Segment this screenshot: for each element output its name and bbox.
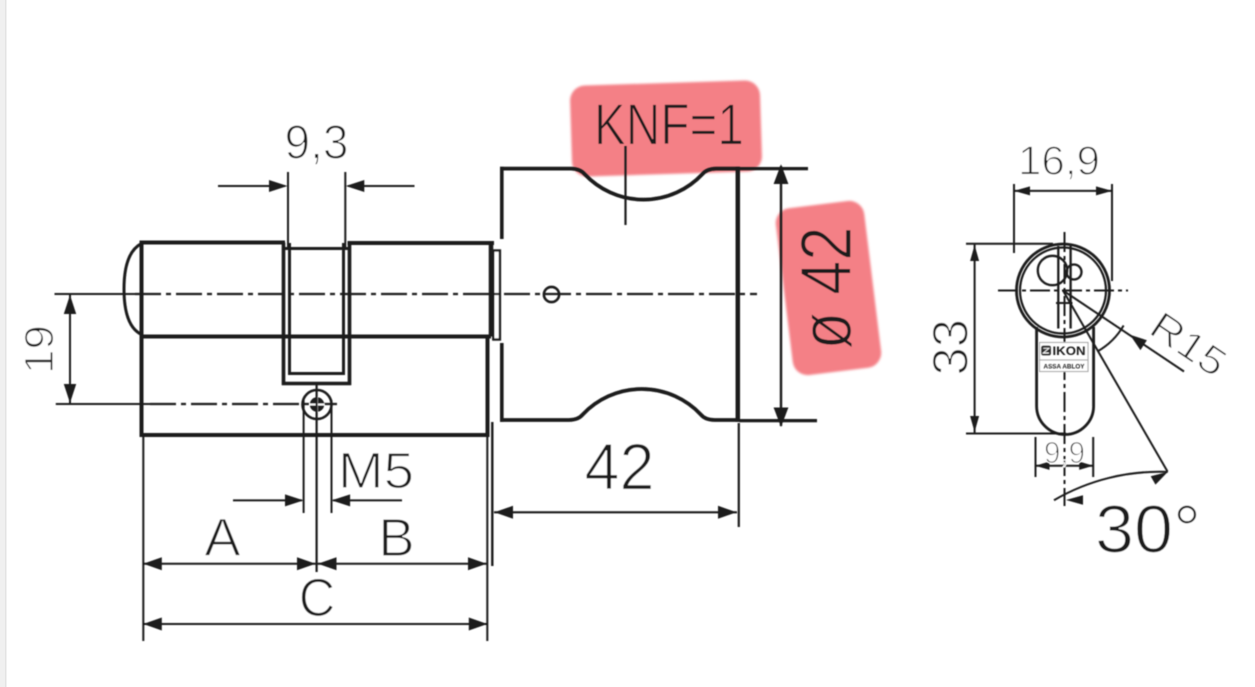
svg-text:30°: 30° — [1095, 492, 1201, 568]
knob face hole — [544, 287, 559, 302]
knob left edge lower segment — [500, 343, 504, 422]
keyway tick — [1056, 302, 1073, 304]
dim 33 extension lines — [966, 243, 1053, 245]
dim C line — [143, 623, 487, 625]
profile circle inner — [1020, 248, 1106, 334]
highlight marker O42 — [774, 199, 883, 377]
barrel right edge — [489, 241, 494, 337]
right extension line — [486, 437, 488, 641]
cam slot inner U — [290, 243, 344, 374]
dim O42 extensions — [740, 167, 809, 170]
keyway dome circle — [1038, 256, 1067, 285]
svg-text:C: C — [299, 569, 336, 628]
bridge top edge — [284, 247, 350, 250]
dim 19 line and arrows — [69, 295, 71, 403]
body bottom edge — [140, 433, 488, 437]
knob top edge with groove arc — [500, 169, 740, 200]
profile foot — [1037, 327, 1094, 435]
barrel top edge right half — [348, 241, 495, 245]
knob right edge — [736, 167, 741, 422]
svg-text:IKON: IKON — [1053, 346, 1086, 358]
knob left edge upper segment — [500, 167, 504, 239]
keyway right bulge — [1067, 265, 1082, 280]
wedge arc — [1098, 326, 1124, 352]
svg-text:M5: M5 — [338, 442, 414, 499]
screw axis centerline — [56, 403, 152, 405]
neck ring — [493, 251, 500, 340]
dim 9,3 extension lines — [287, 172, 289, 250]
profile horizontal centerline — [998, 290, 1128, 292]
cylinder left end cap arc — [124, 244, 142, 335]
cylinder body left edge — [140, 241, 144, 437]
dim 16,9 extension lines — [1013, 184, 1015, 253]
svg-text:B: B — [378, 509, 415, 568]
dim A B chained line — [143, 563, 486, 565]
profile circle outer — [1017, 244, 1110, 337]
dim M5 arrows — [233, 499, 302, 501]
svg-text:42: 42 — [585, 430, 655, 504]
dim 9,9 line — [1036, 465, 1094, 467]
IKON logo emblem — [1041, 346, 1051, 356]
dim O42 vertical line — [780, 166, 782, 426]
dim 16,9 line — [1014, 190, 1112, 192]
svg-text:16,9: 16,9 — [1018, 138, 1100, 184]
dim 42 line — [494, 511, 737, 513]
dim 9,3 arrows — [218, 185, 285, 187]
keyway channel — [1057, 246, 1059, 329]
svg-text:9,9: 9,9 — [1044, 436, 1085, 470]
profile vertical centerline — [1064, 232, 1066, 506]
page left edge strip — [0, 0, 5, 687]
barrel bottom edge — [140, 335, 492, 339]
svg-text:9,3: 9,3 — [285, 116, 349, 170]
svg-text:ø 42: ø 42 — [787, 227, 867, 350]
main axis centerline — [55, 293, 141, 295]
dim 42 knob extension lines — [491, 422, 493, 566]
lower body right edge — [486, 335, 490, 438]
svg-text:KNF=1: KNF=1 — [594, 93, 744, 158]
svg-text:33: 33 — [923, 319, 979, 376]
screw center extension line — [316, 384, 318, 572]
IKON logo box — [1040, 343, 1089, 361]
30deg arc — [1054, 472, 1168, 500]
fixing screw M5 — [303, 390, 332, 419]
R15 leader arrowhead — [1130, 335, 1147, 350]
ASSA ABLOY box — [1040, 360, 1089, 372]
dim 33 line — [974, 245, 976, 433]
cam slot outer U — [284, 243, 350, 384]
wedge line 60deg — [1063, 291, 1168, 472]
knob bottom edge with groove arc — [500, 389, 740, 420]
dim M5 extension lines — [303, 400, 305, 513]
svg-text:A: A — [204, 509, 241, 568]
dim 9,9 extension lines — [1035, 437, 1037, 477]
R15 leader line from center — [1063, 291, 1184, 372]
svg-text:19: 19 — [16, 325, 62, 374]
svg-text:ASSA ABLOY: ASSA ABLOY — [1044, 363, 1086, 370]
highlight marker KNF=1 — [570, 80, 763, 177]
left extension line — [142, 437, 144, 641]
barrel top edge left half — [140, 241, 286, 245]
KNF=1 leader line — [624, 146, 626, 225]
